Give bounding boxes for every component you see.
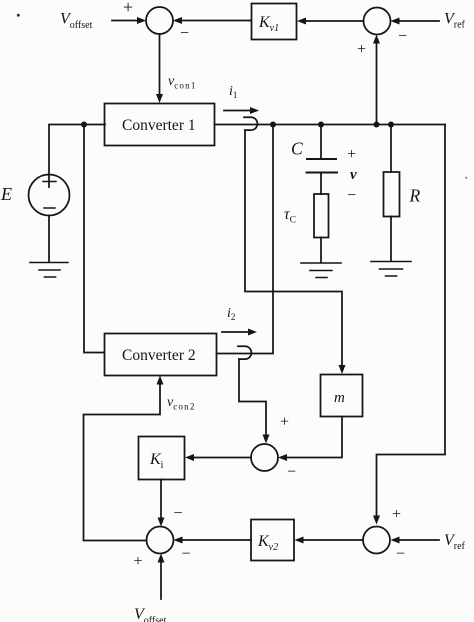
svg-text:Vref: Vref (444, 11, 466, 31)
label E (0, 184, 12, 204)
ground under R (371, 262, 411, 277)
minus sign at S1 right input (180, 25, 189, 42)
ground under tau_C (301, 263, 341, 278)
svg-text:+: + (134, 553, 143, 570)
label tau_C (284, 206, 296, 226)
wire R to ground (390, 217, 392, 262)
wire K_v2 to S5 with arrow (174, 537, 252, 544)
svg-text:i1: i1 (229, 84, 237, 100)
wire Converter 1 left to source E (49, 125, 105, 188)
wire Converter 2 output to bus riser (217, 127, 274, 354)
plus sign of v (347, 146, 356, 163)
label C (291, 139, 303, 159)
minus sign at S5 right input (182, 546, 191, 563)
current sensor loop on i_1 wire (244, 117, 257, 130)
block Converter 1 (105, 104, 215, 146)
label V_ref (bottom) (444, 532, 466, 552)
wire junction down to Converter 2 (84, 125, 104, 353)
label V_offset (top) (60, 11, 93, 32)
minus sign at S4 right input (287, 464, 296, 481)
wire V_ref to S6 with arrow (391, 537, 440, 544)
svg-text:−: − (287, 464, 296, 481)
wire output bus of Converter 1 (215, 124, 446, 126)
svg-text:Converter 2: Converter 2 (122, 347, 196, 364)
i_2 sense wire to S4 with arrow (239, 359, 270, 443)
capacitor C (307, 125, 338, 195)
i_1 sense wire to block m with arrow (245, 130, 346, 374)
wire E to ground (48, 216, 50, 263)
wire V_offset to S1 with arrow (112, 17, 146, 24)
resistor R (384, 172, 400, 217)
svg-text:−: − (398, 28, 407, 45)
svg-text:v: v (350, 167, 357, 183)
summing junction S1 (top left) (146, 7, 173, 34)
summing junction S2 (top right) (364, 8, 391, 35)
block K_v2 (251, 520, 294, 561)
svg-text:τC: τC (284, 206, 296, 226)
svg-text:Vref: Vref (444, 532, 466, 552)
wire v_con1 S1 to Converter 1 with arrow (156, 34, 163, 103)
svg-text:Ki: Ki (149, 451, 164, 471)
arrow i_2 (222, 329, 257, 336)
wire S2 to K_v1 with arrow (297, 18, 364, 25)
svg-text:E: E (0, 184, 12, 204)
label v (350, 167, 357, 183)
source E (29, 175, 70, 216)
block m (321, 375, 363, 417)
node dot bus at Converter 2 riser (270, 122, 276, 128)
summing junction S4 (current loop) (251, 444, 278, 471)
resistor tau_C (314, 194, 329, 238)
svg-text:+: + (347, 146, 356, 163)
block Converter 2 (105, 334, 217, 376)
plus sign at S6 top input (392, 506, 401, 523)
svg-text:Converter 1: Converter 1 (122, 117, 196, 134)
svg-text:C: C (291, 139, 303, 159)
svg-text:m: m (334, 390, 345, 406)
node dot bus at capacitor branch (318, 122, 324, 128)
wire S5 output to v_con2 into Converter 2 with arrow (84, 376, 164, 541)
minus sign at S6 right input (396, 546, 405, 563)
svg-text:Kv1: Kv1 (258, 14, 279, 34)
minus sign at S5 top input (174, 505, 183, 522)
svg-text:+: + (280, 414, 289, 431)
svg-text:i2: i2 (227, 306, 235, 322)
label i_2 (227, 306, 235, 322)
block K_v1 (252, 4, 297, 40)
wire S6 to K_v2 with arrow (295, 537, 364, 544)
wire K_i to S5 with arrow (158, 480, 165, 527)
wire S4 to K_i with arrow (185, 454, 251, 461)
wire K_v1 to S1 with arrow (173, 17, 251, 24)
svg-text:Voffset: Voffset (60, 11, 93, 32)
wire tau_C to ground (320, 238, 322, 263)
arrow i_1 (224, 107, 259, 114)
svg-text:R: R (409, 186, 421, 206)
minus sign at S2 right input (398, 28, 407, 45)
node junction dot on left wire (81, 122, 87, 128)
plus sign at S5 bottom input (134, 553, 143, 570)
summing junction S6 (bottom right) (363, 527, 390, 554)
svg-text:−: − (174, 505, 183, 522)
block K_i (139, 437, 185, 480)
feedback wire bus to S2 with arrow (373, 35, 380, 124)
svg-text:vcon2: vcon2 (167, 395, 196, 412)
summing junction S5 (bottom left) (147, 527, 174, 554)
svg-text:+: + (392, 506, 401, 523)
wire m output to S4 with arrow (278, 417, 342, 462)
plus sign at S1 left input (123, 0, 133, 17)
svg-text:−: − (182, 546, 191, 563)
svg-text:−: − (180, 25, 189, 42)
plus sign at S2 bottom input (357, 41, 366, 58)
wire bus to resistor R (390, 125, 392, 173)
label i_1 (229, 84, 237, 100)
svg-text:Voffset: Voffset (134, 606, 167, 622)
svg-text:+: + (123, 0, 133, 17)
svg-text:Kv2: Kv2 (257, 533, 278, 553)
wire V_offset to S5 with arrow (158, 554, 165, 600)
label R (409, 186, 421, 206)
minus sign of v (347, 187, 356, 204)
node dot bus at S2 feedback (374, 122, 380, 128)
label v_con1 (168, 74, 197, 91)
label V_offset (bottom) (134, 606, 167, 622)
wire right feedback from bus to S6 with arrow (373, 125, 445, 525)
current sensor loop on i_2 wire (238, 346, 251, 359)
svg-text:−: − (396, 546, 405, 563)
svg-text:−: − (347, 187, 356, 204)
label V_ref (top) (444, 11, 466, 31)
svg-text:vcon1: vcon1 (168, 74, 197, 91)
ground under E (30, 263, 68, 278)
node dot bus at R branch (388, 122, 394, 128)
plus sign at S4 top input (280, 414, 289, 431)
label v_con2 (167, 395, 196, 412)
svg-text:+: + (357, 41, 366, 58)
wire V_ref to S2 with arrow (391, 18, 440, 25)
